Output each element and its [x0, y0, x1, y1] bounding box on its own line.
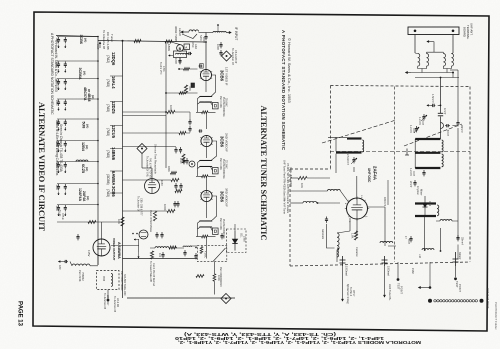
wire into video tube top	[101, 222, 103, 239]
UHF tuner dashed divider	[394, 87, 396, 263]
wire row y116	[123, 115, 167, 117]
svg-text:Ceramic: Ceramic	[355, 247, 359, 257]
mixer coil core bars group 3	[415, 202, 436, 204]
wire T2 to tube V3	[205, 176, 207, 190]
test point left	[397, 262, 399, 278]
svg-text:To Junction Of: To Junction Of	[137, 196, 140, 212]
wire coil row to x388	[388, 245, 396, 247]
capacitor cluster 2 left column	[57, 60, 98, 62]
svg-text:115V: 115V	[87, 250, 91, 256]
svg-text:L8 & R2: L8 & R2	[116, 298, 119, 308]
svg-text:3CB6: 3CB6	[220, 136, 225, 148]
svg-text:Crystal: Crystal	[416, 186, 420, 195]
svg-text:2AF4A: 2AF4A	[373, 166, 378, 181]
svg-text:A 6AW8A: A 6AW8A	[117, 242, 121, 259]
capacitor .5mmf	[445, 125, 447, 127]
trap dashed box 4.5MC	[197, 246, 227, 262]
svg-text:POINT: POINT	[400, 286, 404, 294]
svg-text:1000: 1000	[55, 163, 58, 169]
small tube section circle	[139, 230, 148, 239]
svg-text:12CU5: 12CU5	[111, 125, 116, 139]
svg-text:(7A5): (7A5)	[106, 128, 110, 136]
svg-text:PLATE WINDING: PLATE WINDING	[222, 159, 225, 179]
svg-text:(7A5): (7A5)	[106, 189, 110, 197]
resistor vertical with peak label	[153, 211, 156, 221]
trimmer 1.2-3.5mmf upper right	[416, 126, 418, 129]
svg-text:1000: 1000	[174, 58, 178, 64]
resistor 1.8K	[354, 231, 357, 240]
coil y250	[422, 249, 434, 251]
svg-text:1000: 1000	[55, 206, 58, 212]
svg-text:PLATE WINDING: PLATE WINDING	[222, 97, 225, 117]
svg-text:PHOTOFACT Folder: PHOTOFACT Folder	[494, 302, 498, 330]
sound takeoff coil dashed box	[97, 271, 120, 290]
svg-text:1.2-3.5: 1.2-3.5	[418, 117, 421, 125]
coax UHF IF output	[428, 299, 432, 303]
diamond test point M1	[222, 51, 232, 61]
converter circle B	[177, 45, 184, 52]
RF coil group 1 winding loops	[362, 140, 364, 152]
svg-text:(A): (A)	[84, 38, 88, 42]
tuner input bus	[415, 77, 459, 79]
coupling half loop on wire	[441, 123, 444, 129]
svg-text:22.3MC: 22.3MC	[225, 160, 228, 169]
wire V2 plate to T2	[211, 141, 217, 161]
svg-text:Part #24K756842: Part #24K756842	[120, 271, 123, 291]
svg-text:To 2nd VHF: To 2nd VHF	[159, 62, 162, 75]
wire bus into converter	[171, 42, 180, 45]
svg-text:1000: 1000	[179, 158, 182, 164]
wire vertical bus x98	[97, 37, 99, 266]
svg-text:(7A5): (7A5)	[106, 79, 110, 87]
UHF tuner dashed outline bottom	[290, 262, 470, 266]
arrow VHF	[99, 42, 101, 48]
test point right	[455, 266, 457, 277]
svg-text:mmf: mmf	[421, 120, 424, 125]
wire row y146 with caps	[123, 145, 177, 147]
svg-text:Mixer: Mixer	[420, 189, 424, 196]
twin lead V wires	[182, 34, 197, 39]
svg-text:3CB6A: 3CB6A	[78, 68, 82, 80]
IF transformer T2 secondary coil	[200, 165, 212, 168]
coil bottom near x388	[380, 241, 393, 243]
trimmer 2.5-9mmf	[353, 157, 355, 160]
capacitor 1.5mmf shunt	[427, 104, 432, 106]
wire vertical x166 service line	[165, 42, 167, 168]
feedthrough capacitor 30mmf right	[455, 252, 457, 266]
svg-text:(7A5): (7A5)	[106, 104, 110, 112]
wire V3 plate to T3	[211, 196, 217, 221]
svg-text:4.5MC: 4.5MC	[204, 251, 207, 258]
svg-text:1000: 1000	[55, 185, 58, 191]
svg-text:1000: 1000	[55, 120, 58, 126]
IF transformer T2 left lead	[197, 163, 199, 177]
svg-text:180mmf: 180mmf	[383, 197, 386, 206]
RF coil assembly group 1 bars	[347, 137, 362, 139]
resistor 10K into tuner	[298, 176, 307, 179]
svg-text:12DZ5: 12DZ5	[111, 101, 116, 114]
UHF tuner dashed outline step	[290, 168, 331, 170]
svg-text:1000: 1000	[55, 80, 58, 86]
dark jack square	[191, 83, 195, 88]
svg-text:L12: L12	[418, 254, 421, 259]
resistor horizontal bottom trap	[196, 275, 204, 278]
elbow wire to small coil	[327, 224, 335, 248]
svg-text:1.2-3.5: 1.2-3.5	[409, 125, 412, 133]
grid return resistor with arrow	[178, 68, 184, 70]
capacitor cluster 7 left column	[57, 161, 98, 163]
diode CR2 in trap box	[234, 231, 236, 239]
svg-text:To Junction Of C48,: To Junction Of C48,	[146, 156, 149, 177]
svg-text:R75 &: R75 &	[61, 213, 64, 220]
balun choke loops	[213, 31, 226, 32]
IF transformer T3 slug box	[213, 228, 219, 234]
wire V1 plate to T1	[211, 75, 216, 97]
arrow at converter coil left lead	[169, 55, 174, 57]
svg-text:1000: 1000	[55, 62, 58, 68]
trimmer 1.2-3.5mmf lower	[423, 170, 425, 173]
antenna input coil	[189, 30, 199, 32]
wire vertical bus x122	[122, 41, 124, 299]
svg-text:1000: 1000	[55, 100, 58, 106]
wire top bus left	[56, 36, 98, 37]
capacitor pair mid1	[189, 119, 191, 122]
capacitor 180mmf bottom left	[59, 261, 65, 263]
IF transformer T1 left lead	[197, 99, 199, 113]
tube V3 3rd video IF 3CB6	[201, 190, 212, 201]
svg-text:ADJ: ADJ	[194, 44, 198, 50]
svg-text:1.2-3.5: 1.2-3.5	[409, 168, 412, 176]
svg-text:Tuner: Tuner	[110, 34, 114, 42]
wires from terminal board	[414, 35, 416, 54]
IF transformer T3 primary coil	[200, 220, 212, 223]
svg-text:300Ω TWIN: 300Ω TWIN	[174, 26, 178, 42]
wire diode down to coil	[424, 216, 426, 250]
svg-text:(A): (A)	[86, 124, 90, 128]
wire T1 to tube V2	[205, 112, 207, 129]
IF transformer T3 left lead	[197, 223, 199, 237]
tube V2 2nd video IF 3CB6	[201, 135, 212, 146]
svg-text:CC 12B 4-8B: CC 12B 4-8B	[106, 32, 110, 50]
svg-text:UHF Tuner Part #TRV-4023A Used: UHF Tuner Part #TRV-4023A Used With VHF …	[283, 160, 287, 214]
resistor mid3	[171, 178, 179, 181]
svg-text:A PHOTOFACT STANDARD NOTATION: A PHOTOFACT STANDARD NOTATION SCHEMATIC	[50, 33, 54, 115]
svg-text:L8 & R17: L8 & R17	[106, 295, 109, 306]
svg-text:To Pin 4: To Pin 4	[349, 287, 352, 297]
wire video out down	[97, 254, 99, 266]
svg-text:C99, C98 & R77: C99, C98 & R77	[140, 198, 143, 216]
svg-text:or 4BS8: or 4BS8	[87, 89, 91, 102]
svg-text:14BN6: 14BN6	[111, 147, 116, 161]
svg-text:VIDEO OUTPUT: VIDEO OUTPUT	[112, 238, 116, 261]
svg-text:UHF OSC: UHF OSC	[367, 168, 371, 183]
resistor 47K stage1	[184, 85, 187, 94]
capacitor cluster 9 left column	[57, 204, 98, 206]
svg-text:Seen in Chassis TS-433 TS-433A: Seen in Chassis TS-433 TS-433A	[59, 124, 63, 173]
wire row y222 with resistor	[57, 221, 123, 223]
capacitor cluster 3 left column	[57, 78, 98, 80]
svg-text:1000: 1000	[55, 38, 58, 44]
svg-text:(3CB6): (3CB6)	[106, 174, 110, 185]
wire into diode trap box	[234, 224, 236, 231]
svg-text:POINT: POINT	[458, 284, 462, 292]
sound trap dashed box with diode	[227, 229, 247, 253]
resistor 180K mid2	[179, 131, 186, 134]
tube V5 keying 12AU7	[145, 179, 160, 194]
svg-text:PEAK INTERSTAGE: PEAK INTERSTAGE	[149, 210, 152, 233]
RF coil group 1 left lead	[328, 136, 347, 138]
svg-text:mmf: mmf	[412, 171, 415, 176]
svg-text:5U8: 5U8	[82, 122, 86, 129]
link line ground tick	[406, 149, 408, 156]
svg-text:180: 180	[58, 265, 62, 270]
svg-text:12AF4A: 12AF4A	[78, 188, 82, 202]
scan noise texture	[0, 0, 1, 1]
svg-text:25.6MC: 25.6MC	[225, 98, 228, 107]
svg-text:756842: 756842	[81, 272, 85, 281]
svg-text:© Howard W. Sams & Co., Inc. 1: © Howard W. Sams & Co., Inc. 1953	[287, 38, 292, 104]
capacitor 18mmf right	[457, 120, 459, 123]
svg-text:3CB6: 3CB6	[220, 70, 225, 82]
svg-text:180K: 180K	[167, 166, 170, 172]
capacitor 33mmf	[457, 235, 459, 238]
ground arrow bottom tuner	[419, 287, 431, 289]
converter coil box	[174, 51, 187, 58]
svg-text:180K: 180K	[167, 44, 171, 51]
svg-text:16AL4: 16AL4	[111, 76, 116, 89]
svg-text:2AF4A: 2AF4A	[82, 191, 86, 202]
svg-text:CR4: CR4	[428, 201, 431, 207]
svg-text:IF INPUT: IF INPUT	[234, 27, 238, 40]
diamond test point M2	[221, 294, 231, 304]
svg-text:UHF Tuner B+: UHF Tuner B+	[388, 284, 392, 301]
capacitor cluster right y234	[221, 233, 223, 236]
peaking coil y247b	[183, 246, 191, 247]
crystal diode CR4	[424, 196, 426, 216]
coil bottom brackets	[418, 66, 427, 68]
osc tube left coil	[328, 189, 341, 191]
svg-text:12B4: 12B4	[81, 142, 85, 152]
svg-text:10K: 10K	[300, 183, 304, 188]
resistor 180K y173	[171, 172, 177, 175]
trap resistor inside	[200, 247, 203, 254]
IF transformer T3 damping resistor	[196, 236, 202, 238]
svg-text:1000: 1000	[216, 44, 220, 50]
caps pair y183	[175, 183, 177, 186]
svg-text:Part # 24K: Part # 24K	[219, 158, 222, 170]
svg-text:mmf: mmf	[407, 239, 410, 244]
capacitor mid5	[174, 201, 176, 204]
svg-text:VHF: VHF	[96, 44, 100, 50]
antenna input coils group	[418, 54, 420, 67]
svg-text:Service Test Receptacle: Service Test Receptacle	[154, 144, 158, 174]
capacitor cluster 6 left column	[57, 140, 98, 142]
UHF tuner dashed outline left upper	[330, 86, 332, 170]
diamond service test receptacle	[137, 144, 147, 154]
wire video tube to right	[111, 245, 139, 247]
diagonal trap wire	[213, 248, 226, 262]
svg-text:100K: 100K	[217, 275, 220, 281]
UHF tuner dashed outline right	[469, 87, 471, 263]
capacitor 17mmf	[410, 236, 412, 239]
wire V2 cathode down	[206, 147, 208, 158]
trimmer 1.2-3.5 mmf upper	[423, 114, 425, 117]
filament string arrow	[342, 266, 344, 301]
resistor mid4	[175, 189, 182, 192]
wire small tube down	[138, 239, 140, 252]
RF coil group 2 left vertical	[414, 139, 416, 168]
wire osc tube top to trimmer	[353, 167, 355, 172]
ground stub above balun	[217, 29, 219, 33]
svg-text:1N60: 1N60	[243, 236, 246, 242]
svg-text:mmf: mmf	[412, 128, 415, 133]
svg-text:3CB6: 3CB6	[79, 35, 83, 44]
arrow at small tube left	[134, 239, 139, 241]
resistor 100K mid1	[167, 110, 175, 113]
svg-text:1000: 1000	[55, 142, 58, 148]
svg-text:1000mmf: 1000mmf	[345, 266, 348, 276]
svg-text:4BC07A: 4BC07A	[83, 87, 87, 101]
svg-text:6AW8A: 6AW8A	[111, 171, 116, 185]
capacitor 2mmf	[414, 180, 416, 183]
wire coil junction up	[440, 228, 442, 251]
svg-text:PAGE 13: PAGE 13	[17, 301, 24, 327]
svg-text:SOUND TAKE-OFF: SOUND TAKE-OFF	[123, 274, 126, 296]
svg-text:(A): (A)	[83, 71, 87, 75]
svg-text:100K: 100K	[169, 105, 173, 112]
svg-text:100: 100	[158, 253, 161, 258]
IF transformer T1 primary coil	[200, 95, 212, 98]
svg-text:To Junction Of: To Junction Of	[103, 293, 106, 309]
svg-text:6CZ5: 6CZ5	[81, 164, 85, 173]
capacitor at tube V1 grid	[199, 65, 200, 67]
tuning gang diagonal link 2	[404, 124, 462, 146]
IF transformer T2 damping resistor	[196, 175, 202, 177]
RF coil assembly group 2 bars	[415, 138, 440, 140]
svg-text:To Jct: To Jct	[58, 210, 61, 217]
IF transformer T3 secondary coil	[200, 226, 212, 229]
tube V4 video output 6AW8A	[93, 239, 110, 256]
svg-text:ALTERNATE VIDEO IF CIRCUIT: ALTERNATE VIDEO IF CIRCUIT	[37, 102, 47, 231]
svg-text:Part # 24K: Part # 24K	[219, 218, 222, 230]
components cluster y235	[156, 232, 158, 235]
svg-text:To Junction Of: To Junction Of	[113, 296, 116, 312]
coil right y221	[440, 220, 452, 221]
svg-text:2mmf: 2mmf	[409, 181, 412, 188]
svg-text:115V: 115V	[160, 180, 164, 186]
junction dots row	[132, 233, 134, 235]
wire converter down	[179, 58, 181, 65]
arrow to IF	[226, 32, 231, 34]
svg-text:(A): (A)	[85, 145, 89, 149]
wire V3 cathode down	[206, 202, 208, 218]
svg-text:To Sound Take-Off: To Sound Take-Off	[149, 261, 152, 282]
svg-text:A PHOTOFACT STANDARD NOTATION: A PHOTOFACT STANDARD NOTATION SCHEMATIC	[281, 30, 286, 150]
resistor vertical sound takeoff	[150, 251, 153, 259]
svg-text:Gimmick: Gimmick	[321, 229, 325, 240]
wire right branch	[450, 69, 458, 71]
IF transformer T1 damping resistor	[196, 111, 202, 113]
capacitor cluster 5 left column	[57, 118, 98, 120]
long vertical wire x385	[384, 207, 386, 246]
svg-text:45M: 45M	[102, 276, 106, 281]
tube list separator rules	[110, 75, 123, 77]
capacitor 1000 under converter	[179, 58, 181, 61]
svg-text:Coil 1 Pin Of Demod: Coil 1 Pin Of Demod	[152, 263, 155, 286]
svg-text:47K: 47K	[188, 86, 192, 91]
RF coil group 2 winding loops	[442, 140, 444, 152]
svg-text:30mmf: 30mmf	[458, 252, 461, 260]
wire center down from coils	[440, 78, 442, 114]
resistor 100K mid6	[167, 209, 175, 212]
feedthrough capacitor 1000mmf mid	[384, 256, 386, 266]
wire osc tube right elbow	[368, 206, 386, 208]
UHF tuner dashed outline left lower	[289, 169, 291, 266]
svg-text:UHF IF OUTPUT: UHF IF OUTPUT	[486, 288, 490, 309]
svg-text:6(Filament String): 6(Filament String)	[346, 284, 349, 304]
oscillator tank coil vertical	[337, 231, 350, 233]
capacitor cluster 4 left column	[57, 98, 98, 100]
feedthrough capacitor 1000mmf left	[342, 256, 344, 266]
capacitor at tube V2 grid	[199, 130, 200, 132]
coil top brackets	[415, 52, 418, 55]
agc wire y93 with resistor	[165, 92, 167, 94]
capacitor cluster 1 left column	[57, 36, 98, 38]
svg-text:1.8K: 1.8K	[351, 233, 355, 239]
wire tube V5 stem	[151, 168, 153, 179]
wire T3 bottom to bus	[205, 237, 207, 259]
center tap arrow near board	[427, 41, 433, 43]
capacitor above video out	[77, 234, 79, 237]
svg-text:To Antenna Of: To Antenna Of	[102, 30, 106, 49]
svg-text:33mmf: 33mmf	[461, 237, 464, 245]
tuning gang diagonal link 1	[322, 120, 396, 143]
svg-text:1N82: 1N82	[411, 268, 414, 274]
tube V_osc UHF OSC 2AF4A	[347, 198, 368, 219]
IF transformer T2 slug box	[213, 168, 219, 174]
UHF antenna terminal board	[408, 27, 459, 35]
resistor 10K on bus	[121, 217, 124, 226]
UHF tuner B+ arrow	[384, 266, 386, 297]
svg-text:(7A2): (7A2)	[106, 55, 110, 63]
svg-text:10K: 10K	[117, 219, 121, 224]
capacitor at converter output	[188, 53, 190, 55]
svg-text:100K: 100K	[163, 204, 167, 211]
capacitor on osc grid	[326, 217, 328, 220]
svg-text:ALTERNATE TUNER SCHEMATIC: ALTERNATE TUNER SCHEMATIC	[259, 106, 269, 241]
svg-text:12DQ6: 12DQ6	[111, 52, 116, 66]
wire bus y41	[98, 41, 206, 43]
svg-text:470K: 470K	[162, 66, 165, 72]
antenna twin lead arrow	[181, 31, 189, 33]
wire bus y258	[123, 258, 198, 260]
vertical wire trap to diamond	[213, 262, 215, 274]
tube V1 1st video IF 3CB6	[200, 69, 211, 80]
capacitor 1mmf series on wire	[438, 112, 443, 114]
coil on cluster row 6	[76, 160, 88, 162]
IF transformer T1 slug box	[213, 103, 219, 109]
svg-text:SEL: SEL	[240, 233, 243, 238]
svg-text:1.5mmf: 1.5mmf	[431, 94, 434, 103]
capacitor 1000 stage1	[220, 42, 222, 45]
svg-text:(A): (A)	[86, 196, 90, 200]
peaking coil bottom left	[70, 262, 72, 266]
svg-text:MOTOROLA MODELS Y14P3-1, -2, Y: MOTOROLA MODELS Y14P3-1, -2, Y14P4-1, -2…	[178, 340, 421, 345]
wire bottom bus y298	[127, 297, 235, 299]
capacitor 1000mmf mid	[183, 158, 185, 161]
resistor R on bus at x137	[134, 39, 141, 42]
peaking coil y248	[155, 247, 169, 248]
